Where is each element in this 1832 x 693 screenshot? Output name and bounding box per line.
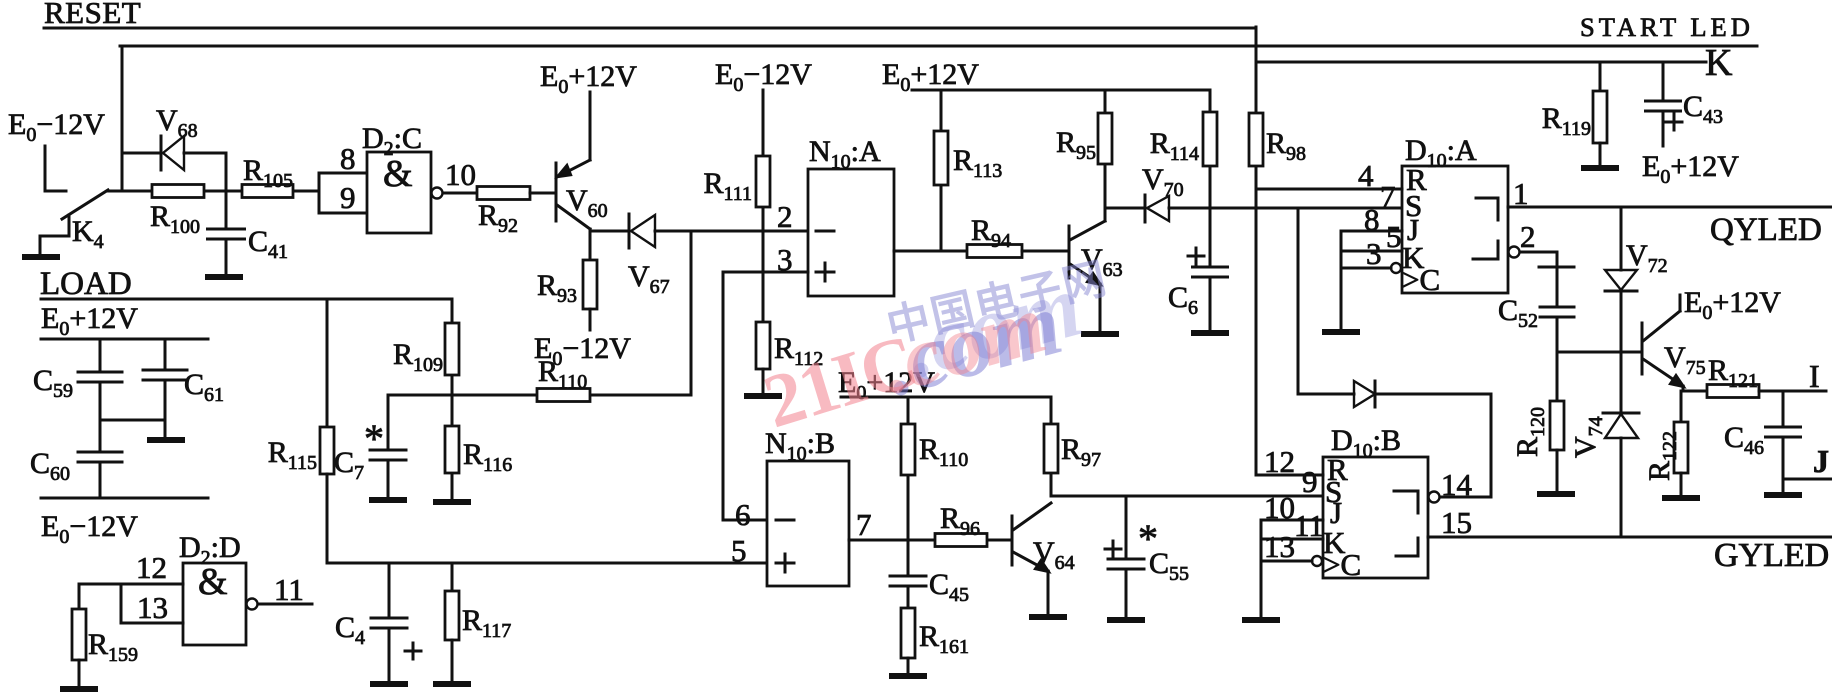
svg-text:D2:D: D2:D	[179, 531, 241, 569]
svg-text:5: 5	[731, 533, 747, 568]
svg-text:4: 4	[1358, 158, 1374, 193]
svg-text:>C: >C	[1402, 262, 1440, 297]
svg-text:LOAD: LOAD	[40, 266, 132, 302]
svg-text:9: 9	[340, 180, 356, 215]
svg-text:3: 3	[1366, 236, 1382, 271]
svg-text:5: 5	[1386, 219, 1402, 254]
svg-text:9: 9	[1302, 464, 1318, 499]
svg-text:11: 11	[274, 572, 304, 607]
svg-text:I: I	[1809, 358, 1820, 394]
svg-text:QYLED: QYLED	[1710, 212, 1822, 248]
svg-text:E0+12V: E0+12V	[540, 60, 637, 98]
svg-text:E0+12V: E0+12V	[1642, 150, 1739, 188]
svg-text:2: 2	[777, 199, 793, 234]
svg-text:8: 8	[340, 141, 356, 176]
svg-text:E0−12V: E0−12V	[8, 108, 105, 146]
svg-text:GYLED: GYLED	[1714, 537, 1829, 574]
svg-text:13: 13	[137, 590, 168, 625]
svg-text:6: 6	[735, 497, 751, 532]
svg-text:*: *	[364, 416, 384, 461]
svg-text:12: 12	[136, 550, 167, 585]
svg-text:7: 7	[1380, 179, 1396, 214]
svg-text:E0−12V: E0−12V	[41, 510, 138, 548]
svg-text:RESET: RESET	[44, 0, 141, 30]
svg-text:10: 10	[1264, 490, 1295, 525]
svg-text:12: 12	[1264, 444, 1295, 479]
svg-text:15: 15	[1441, 505, 1472, 540]
svg-text:2: 2	[1520, 219, 1536, 254]
svg-text:E0+12V: E0+12V	[41, 302, 138, 340]
svg-text:7: 7	[856, 507, 872, 542]
svg-text:E0+12V: E0+12V	[1684, 286, 1781, 324]
svg-text:START LED: START LED	[1580, 12, 1754, 42]
svg-text:11: 11	[1294, 508, 1324, 543]
svg-text:J: J	[1813, 443, 1829, 479]
svg-text:1: 1	[1513, 176, 1529, 211]
svg-text:13: 13	[1264, 529, 1295, 564]
svg-text:>C: >C	[1323, 547, 1361, 582]
svg-text:14: 14	[1441, 467, 1473, 502]
svg-text:10: 10	[445, 157, 476, 192]
svg-text:K: K	[1705, 42, 1733, 84]
